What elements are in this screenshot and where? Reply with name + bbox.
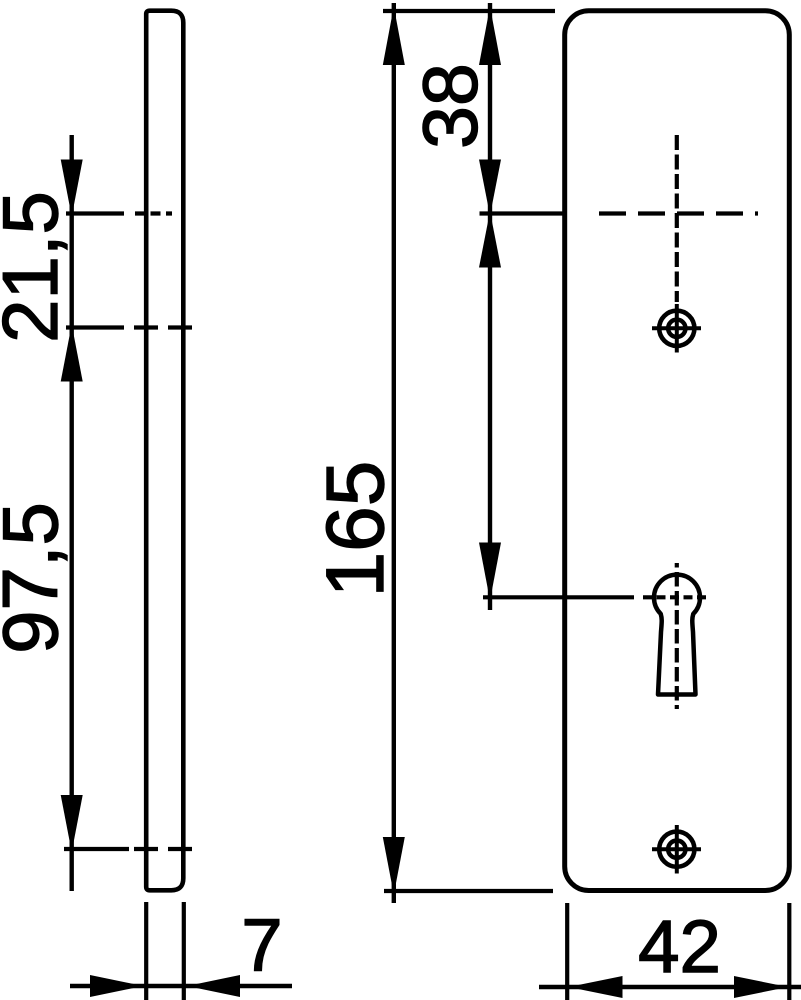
hub center line y213 solid xyxy=(480,211,567,215)
side view profile outline xyxy=(146,11,183,891)
72-dim arrow down tip (490,596) xyxy=(479,543,501,601)
42-dim extension line right xyxy=(787,903,791,1000)
front view plate outline xyxy=(565,11,790,891)
keyhole center line vertical dashed xyxy=(675,563,679,709)
7-dim extension line left xyxy=(144,902,148,1000)
center line row y849 dashed xyxy=(134,847,198,851)
42-dim arrow pointing right xyxy=(734,976,788,998)
38-dim arrow up tip (490,11) xyxy=(479,7,501,66)
7-dim extension line right xyxy=(182,902,186,1000)
center line tick row y327 solid xyxy=(66,325,124,329)
arrow down tip (72,213) xyxy=(61,160,83,217)
bottom screw hole outer circle xyxy=(659,832,694,867)
38-dim arrow down tip (490,213) xyxy=(479,160,501,216)
arrow up tip (72,327) xyxy=(61,325,83,382)
7-dim arrow pointing left xyxy=(187,975,240,997)
165-dim line x394 xyxy=(392,3,396,903)
center line tick row y213 solid xyxy=(66,211,124,215)
keyhole center line horizontal dashed xyxy=(643,595,710,599)
svg-text:165: 165 xyxy=(310,461,401,598)
hub center line y213 dashed xyxy=(599,211,758,215)
165-dim arrow up tip (394,11) xyxy=(383,7,405,66)
top screw hole vertical crosshair xyxy=(675,304,679,353)
7-dim arrow pointing right xyxy=(90,975,143,997)
top hole vertical dashed center line xyxy=(675,135,679,302)
svg-text:97,5: 97,5 xyxy=(0,502,74,654)
bottom screw hole inner circle xyxy=(668,841,685,858)
keyhole center line horizontal solid xyxy=(483,595,634,599)
arrow down tip (72,849) xyxy=(61,795,83,852)
left dimension line x72 xyxy=(69,135,73,891)
top extension line xyxy=(383,9,555,13)
svg-text:42: 42 xyxy=(638,905,721,988)
center line row y327 dashed xyxy=(134,325,198,329)
bottom screw hole vertical crosshair xyxy=(675,825,679,874)
top screw hole outer circle xyxy=(659,311,694,346)
center line tick row y849 solid xyxy=(64,847,129,851)
7-dim line xyxy=(70,984,292,988)
38/72-dim line x490 xyxy=(488,3,492,610)
svg-text:21,5: 21,5 xyxy=(0,191,74,343)
42-dim extension line left xyxy=(565,903,569,1000)
42-dim line xyxy=(539,985,801,989)
165-dim arrow down tip (394,891) xyxy=(383,837,405,895)
center line row y213 dashed xyxy=(135,211,172,215)
top screw hole inner circle xyxy=(668,320,685,337)
svg-text:7: 7 xyxy=(241,904,282,987)
bottom extension line xyxy=(384,889,553,893)
keyhole xyxy=(654,575,700,695)
72-dim arrow up tip (490,213) xyxy=(479,212,501,268)
svg-text:38: 38 xyxy=(408,63,494,149)
42-dim arrow pointing left xyxy=(569,976,623,998)
top screw hole horizontal crosshair xyxy=(652,326,701,330)
bottom screw hole horizontal crosshair xyxy=(652,847,701,851)
